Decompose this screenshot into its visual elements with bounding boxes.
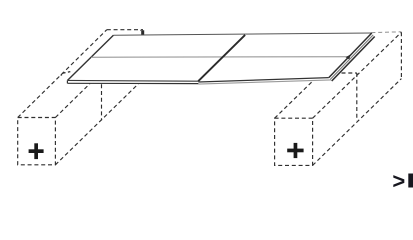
desk top left half: band end closure at left corner [66, 80, 68, 83]
desk top right half: near edge dark line [198, 78, 328, 82]
pedestal left: bottom-right depth edge (to panel near edge) [55, 84, 138, 165]
clipped letter fragment [408, 174, 413, 188]
desk top: centre divider joint (heavy diagonal) [198, 35, 245, 81]
plus mark right pedestal [287, 143, 303, 158]
desk top: left edge [68, 35, 114, 80]
desk top: far edge [113, 33, 371, 35]
desk top right half: right edge band bottom line [332, 37, 375, 82]
desk top right half: right edge band top line [329, 33, 372, 78]
wedge where mid joint meets right edge band [346, 54, 351, 59]
pedestal left: half-depth joint back-right vertical (below panel) [101, 84, 103, 120]
pedestal left: back-right vertical stub above panel far edge [140, 30, 144, 34]
plus mark left pedestal [29, 143, 44, 159]
pedestal right: half-depth joint back-right vertical [356, 73, 358, 121]
pedestal right: back-top edge (gray, beyond panel corner) [371, 31, 401, 34]
pedestal right: top-left depth edge (to panel near edge) [275, 80, 314, 118]
desk top left half: near edge bottom line (thickness) [68, 82, 199, 84]
desk top left half: near edge top line [68, 79, 199, 82]
pedestal right: half-depth joint back-top edge (right of panel edge) [342, 72, 357, 74]
pedestal left: top-left depth edge [18, 30, 107, 118]
desk top right half: right edge band middle gray line [330, 35, 373, 80]
pedestal left: back-top edge (above panel) [107, 29, 143, 31]
pedestal right: back-right vertical edge [400, 32, 402, 78]
pedestal right: bottom-right depth edge (full) [313, 79, 402, 166]
pedestal right: top-right depth edge (full) [313, 32, 402, 118]
desk top right half: near edge gray underline [198, 80, 331, 84]
pedestal left: half-depth joint back-top tick [61, 72, 71, 76]
pedestal right: front face dashed rectangle [275, 118, 313, 165]
pedestal left: front face dashed rectangle [18, 118, 56, 165]
svg-text:>: > [392, 168, 405, 193]
pedestal left: top-right depth edge (to panel near edge) [55, 84, 90, 118]
desk top: gray mid joint line [91, 56, 348, 59]
